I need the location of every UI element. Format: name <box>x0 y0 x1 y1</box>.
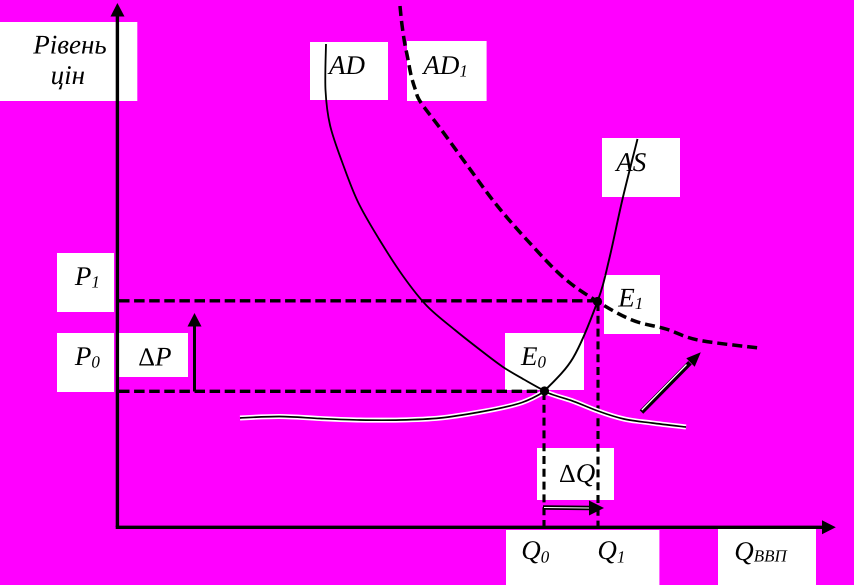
svg-text:ΔQ: ΔQ <box>559 458 595 488</box>
svg-text:цін: цін <box>51 60 85 90</box>
svg-text:Рівень: Рівень <box>32 29 106 59</box>
svg-text:ΔP: ΔP <box>138 342 171 372</box>
svg-text:AD: AD <box>327 50 365 80</box>
svg-text:AS: AS <box>614 147 646 177</box>
